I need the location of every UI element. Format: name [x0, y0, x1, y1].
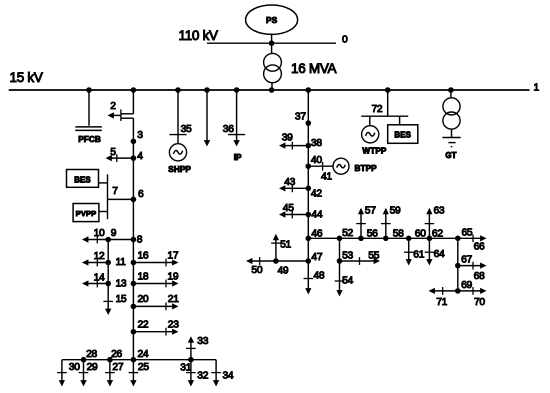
svg-text:16: 16: [138, 250, 149, 261]
svg-text:27: 27: [112, 362, 123, 373]
svg-text:25: 25: [138, 362, 149, 373]
svg-text:19: 19: [167, 271, 178, 282]
svg-text:11: 11: [116, 257, 127, 268]
svg-text:62: 62: [432, 229, 443, 240]
svg-text:9: 9: [111, 228, 117, 239]
svg-text:53: 53: [342, 250, 353, 261]
svg-text:56: 56: [367, 229, 378, 240]
svg-text:46: 46: [311, 229, 322, 240]
svg-text:28: 28: [86, 349, 97, 360]
svg-text:13: 13: [116, 279, 127, 290]
svg-text:54: 54: [342, 276, 353, 287]
svg-text:68: 68: [474, 271, 485, 282]
svg-text:37: 37: [295, 111, 306, 122]
svg-text:31: 31: [180, 362, 191, 373]
svg-text:66: 66: [474, 242, 485, 253]
svg-text:PS: PS: [266, 15, 278, 25]
svg-text:0: 0: [342, 35, 348, 46]
svg-text:WTPP: WTPP: [362, 147, 386, 156]
svg-text:3: 3: [137, 130, 143, 141]
svg-text:45: 45: [283, 203, 294, 214]
svg-text:BES: BES: [394, 130, 411, 139]
svg-text:63: 63: [434, 205, 445, 216]
svg-text:12: 12: [94, 251, 105, 262]
svg-text:61: 61: [413, 249, 424, 260]
svg-text:70: 70: [474, 297, 485, 308]
svg-text:47: 47: [311, 252, 322, 263]
svg-text:26: 26: [111, 349, 122, 360]
svg-text:49: 49: [278, 266, 289, 277]
svg-text:6: 6: [138, 189, 144, 200]
svg-text:20: 20: [138, 294, 149, 305]
svg-text:GT: GT: [445, 151, 456, 160]
svg-text:34: 34: [223, 370, 234, 381]
svg-text:65: 65: [462, 228, 473, 239]
svg-text:14: 14: [94, 272, 105, 283]
svg-text:24: 24: [138, 349, 149, 360]
svg-text:50: 50: [251, 265, 262, 276]
svg-text:4: 4: [137, 151, 143, 162]
svg-text:7: 7: [112, 186, 118, 197]
svg-text:SHPP: SHPP: [168, 165, 191, 174]
svg-text:60: 60: [415, 229, 426, 240]
svg-text:36: 36: [223, 124, 234, 135]
svg-text:BES: BES: [74, 176, 91, 185]
svg-text:22: 22: [138, 319, 149, 330]
svg-text:69: 69: [461, 280, 472, 291]
svg-text:72: 72: [372, 104, 383, 115]
svg-text:58: 58: [393, 229, 404, 240]
svg-text:51: 51: [280, 240, 291, 251]
svg-text:39: 39: [282, 133, 293, 144]
svg-text:67: 67: [461, 255, 472, 266]
svg-text:52: 52: [342, 228, 353, 239]
svg-text:29: 29: [87, 362, 98, 373]
svg-text:35: 35: [181, 124, 192, 135]
svg-text:5: 5: [110, 147, 116, 158]
svg-text:32: 32: [197, 370, 208, 381]
svg-text:1: 1: [534, 83, 540, 94]
svg-text:64: 64: [434, 249, 445, 260]
svg-text:10: 10: [94, 228, 105, 239]
svg-text:15 kV: 15 kV: [10, 70, 43, 85]
svg-text:59: 59: [390, 205, 401, 216]
svg-text:30: 30: [69, 362, 80, 373]
svg-text:21: 21: [168, 294, 179, 305]
svg-text:PVPP: PVPP: [76, 209, 97, 218]
svg-text:110 kV: 110 kV: [179, 28, 219, 43]
svg-text:40: 40: [311, 155, 322, 166]
svg-text:71: 71: [436, 297, 447, 308]
svg-text:BTPP: BTPP: [355, 164, 378, 173]
svg-text:8: 8: [137, 234, 143, 245]
svg-text:18: 18: [138, 271, 149, 282]
svg-text:44: 44: [311, 210, 322, 221]
svg-text:42: 42: [311, 189, 322, 200]
svg-text:15: 15: [116, 294, 127, 305]
svg-text:23: 23: [168, 319, 179, 330]
svg-text:2: 2: [110, 101, 116, 112]
svg-text:17: 17: [167, 250, 178, 261]
svg-text:IP: IP: [234, 153, 242, 162]
svg-text:57: 57: [365, 205, 376, 216]
svg-text:38: 38: [311, 138, 322, 149]
svg-text:33: 33: [197, 336, 208, 347]
svg-text:48: 48: [314, 271, 325, 282]
svg-text:16 MVA: 16 MVA: [291, 61, 337, 76]
svg-text:55: 55: [368, 250, 379, 261]
svg-text:41: 41: [321, 172, 332, 183]
svg-text:43: 43: [284, 177, 295, 188]
svg-text:PFCB: PFCB: [78, 135, 101, 144]
